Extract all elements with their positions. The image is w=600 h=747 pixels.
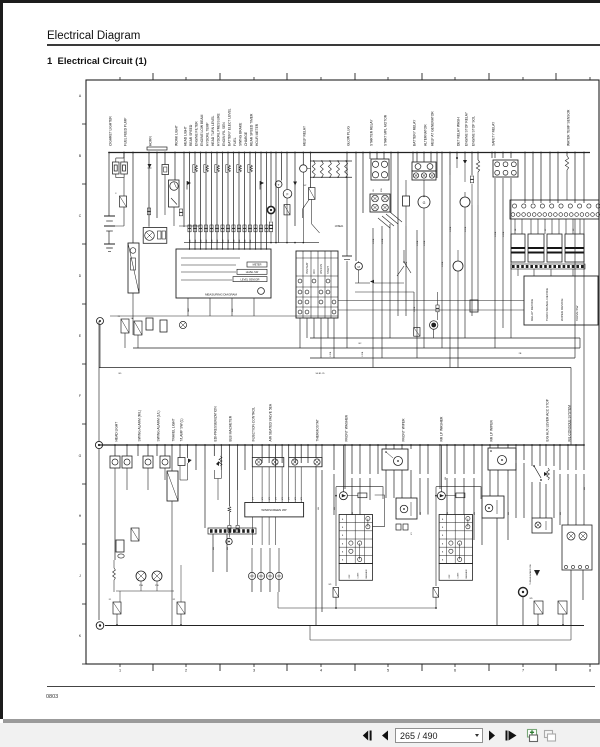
snapshot-new icon [525,728,540,743]
slant rect low [414,328,420,337]
svg-text:1.25B: 1.25B [417,240,419,246]
collector line y2426 [184,242,319,244]
svg-text:T: T [278,183,280,187]
svg-text:25B: 25B [381,188,383,192]
svg-text:TURN&HAZARD SW: TURN&HAZARD SW [529,563,532,585]
connector bead row [188,225,191,228]
svg-text:SWING BRAKE: SWING BRAKE [238,122,242,146]
svg-text:B: B [442,535,444,537]
svg-text:ENGINE STOP RELAY: ENGINE STOP RELAY [464,111,468,146]
svg-text:CONT.: CONT. [458,572,460,579]
svg-text:B: B [442,551,444,553]
console lamp box [562,525,592,570]
svg-text:OFF: OFF [449,574,451,579]
routing bus lines [355,291,414,293]
windscreen wiper box [245,503,304,517]
bottom terminal circle [96,622,104,630]
left fuse low [116,540,124,552]
nav first-page icon [362,730,373,741]
strip to breaker stubs [514,219,516,234]
wiper unit box [289,458,322,467]
svg-text:METER: METER [253,264,262,267]
nav last-page icon [505,730,518,741]
svg-text:HELP AT GENERATOR: HELP AT GENERATOR [430,111,434,146]
svg-text:6: 6 [454,669,456,673]
fuse F1 F2 pair [116,157,124,159]
svg-text:E/G AUX LEVER ACC STOP: E/G AUX LEVER ACC STOP [545,398,549,441]
header title [47,30,140,42]
breaker boxes right [511,234,525,262]
svg-text:CHARGE: CHARGE [244,131,248,146]
snapshot-copy icon [543,729,557,743]
key switch table [296,251,338,318]
alternator G [418,196,430,208]
svg-text:THERMOSTAT: THERMOSTAT [315,419,319,441]
svg-text:FRONT WASHER: FRONT WASHER [344,414,348,441]
svg-text:1.25B: 1.25B [424,240,426,246]
left horizontals [104,225,124,227]
svg-text:L/Y: L/Y [252,496,254,500]
svg-text:B: B [342,560,344,562]
plus contact row [248,572,255,579]
svg-text:RELAY DEVICE: RELAY DEVICE [530,299,534,321]
svg-text:AIR SEATED VALVE 5EA: AIR SEATED VALVE 5EA [268,403,272,441]
svg-text:L/B: L/B [445,476,447,480]
svg-text:5A: 5A [131,317,134,320]
svg-text:5: 5 [387,669,389,673]
svg-text:INJECTION CONTROL: INJECTION CONTROL [252,407,256,442]
glow plug bars [346,250,348,256]
gen circle2 [453,261,463,271]
device box right [524,276,598,325]
left low oval [118,554,124,558]
svg-text:OFF: OFF [349,574,351,579]
footer page code 0803 [46,694,58,700]
dropdown caret [475,734,479,737]
page drop shadow [3,719,600,723]
bottom bus [105,625,584,627]
svg-text:P5B: P5B [139,585,144,587]
svg-text:J: J [79,574,81,578]
low join line [116,590,174,592]
svg-text:WORK LIGHT: WORK LIGHT [174,125,178,146]
frame grid ticks [152,73,154,80]
flag right [260,181,264,185]
diode arrow x295 [293,182,297,186]
left risers [99,325,101,369]
svg-text:1.25B: 1.25B [450,226,452,232]
svg-text:L/Y: L/Y [282,496,284,500]
svg-text:1.25B: 1.25B [465,226,467,232]
svg-text:R/L CONSOLE SYSTEM: R/L CONSOLE SYSTEM [567,405,571,442]
svg-text:REAR SPEED: REAR SPEED [189,124,193,146]
svg-text:B: B [442,560,444,562]
det relay dot [456,157,458,159]
svg-text:CIGARET LIGHTER: CIGARET LIGHTER [108,116,112,146]
svg-text:MEASURING DIAGRAM: MEASURING DIAGRAM [205,293,237,297]
bottom second line [310,639,571,641]
svg-text:SWING ALARM (L/L): SWING ALARM (L/L) [156,411,160,442]
page top border [0,0,600,3]
svg-text:ON RUN: ON RUN [320,264,323,274]
swing alarm lamps [143,456,153,468]
svg-text:VALVE SW: VALVE SW [575,306,579,321]
pressure bead [436,305,439,308]
diag route 1 [303,199,310,218]
edi var resistor [219,456,222,466]
svg-text:B5: B5 [119,373,122,375]
main power bus section1 [109,152,590,154]
viewer toolbar [0,723,600,747]
starter diagonals [390,212,402,222]
svg-text:ENGINE FILTER: ENGINE FILTER [194,121,198,146]
stop relay arrow [463,160,467,164]
svg-text:B: B [342,543,344,545]
fuse box small2 [160,320,167,332]
svg-text:3: 3 [253,669,255,673]
fuse box small [146,318,153,330]
svg-text:F: F [79,394,81,398]
svg-text:HEAD LIGHT: HEAD LIGHT [114,422,118,442]
svg-text:C: C [79,214,82,218]
svg-text:B: B [342,551,344,553]
svg-text:WINDSCREEN WP: WINDSCREEN WP [261,508,286,512]
svg-text:1.25B: 1.25B [330,351,332,357]
svg-text:STARTER RELAY: STARTER RELAY [369,119,373,146]
svg-text:D: D [79,274,82,278]
svg-text:REAR SPEED TIMER: REAR SPEED TIMER [249,113,253,146]
svg-text:1.25B: 1.25B [414,306,416,312]
mid join line [278,607,436,609]
svg-text:F1: F1 [109,599,112,601]
svg-text:4: 4 [320,669,322,673]
svg-text:E: E [79,334,82,338]
front wiper box [382,449,408,470]
svg-text:G: G [423,201,426,205]
svg-text:ENGINE LOW BEAM: ENGINE LOW BEAM [200,114,204,146]
svg-text:L/Y: L/Y [411,531,413,535]
svg-text:OFF: OFF [313,269,316,274]
fuel gauge F [283,190,292,199]
meter box work light [169,180,180,207]
svg-text:1.25B: 1.25B [373,238,375,244]
svg-text:2B: 2B [519,353,522,355]
page left border [0,0,3,719]
svg-text:W1: W1 [329,584,333,586]
pressure ring [431,323,436,328]
edi joiner [214,478,221,480]
svg-text:F2: F2 [173,599,176,601]
safety relay block [493,160,518,177]
section2 interconnect wires [98,449,100,620]
footer rule [47,686,595,687]
svg-text:WIPER DEVICE: WIPER DEVICE [560,298,564,321]
flasher box [532,518,552,533]
lamp L1 [179,321,186,328]
svg-text:K: K [79,634,82,638]
schematic frame border [86,80,599,664]
svg-text:SWING ALARM (R/L): SWING ALARM (R/L) [137,410,141,442]
ladder A resistor [333,588,339,598]
svg-text:TRAVEL LIGHT: TRAVEL LIGHT [171,418,175,441]
heater resistor bank [310,160,352,162]
svg-text:F: F [115,193,117,195]
svg-text:2: 2 [185,669,187,673]
stop sol bead [470,176,473,179]
svg-text:DET RELAY WASH: DET RELAY WASH [456,117,460,146]
wiper switch ladder B [439,515,472,564]
svg-text:PREHEAT: PREHEAT [306,262,309,274]
measuring diagram box [176,249,271,298]
front wiper lower box [396,498,417,519]
stop zigzag [476,160,479,172]
svg-text:CONT.: CONT. [358,572,360,579]
head lamp pair [110,456,120,468]
bead x182 [179,209,182,212]
svg-text:L/Y: L/Y [289,496,291,500]
slant resistor x287 [284,205,290,215]
svg-text:RR LP WASHER: RR LP WASHER [439,416,443,442]
svg-text:B: B [79,154,82,158]
battery relay block [412,162,436,171]
svg-text:M: M [357,265,360,269]
svg-text:HYDORL TEMP: HYDORL TEMP [205,122,209,146]
svg-text:L/Y: L/Y [269,496,271,500]
flag left [187,181,191,185]
svg-text:SAFETY RELAY: SAFETY RELAY [491,121,495,146]
front washer motor [339,492,347,500]
svg-text:RR LP WIPER: RR LP WIPER [489,420,493,442]
svg-text:H: H [79,514,82,518]
svg-text:FRONT WIPER: FRONT WIPER [401,418,405,442]
svg-text:8: 8 [589,669,591,673]
travel relay [167,471,178,501]
hatched connector strip [208,528,256,534]
svg-text:1: 1 [119,669,121,673]
svg-text:ENGINE STOP SOL: ENGINE STOP SOL [471,116,475,146]
page number box [395,728,483,743]
fuse x165 [162,165,169,175]
section2 vertical wires [114,445,116,456]
bead x229 [228,526,231,529]
wiper switch ladder A [339,515,372,564]
horn feed bracket [147,147,167,150]
svg-text:1R: 1R [373,189,375,192]
svg-text:2467: 2467 [188,308,190,312]
svg-text:1.25B: 1.25B [362,351,364,357]
windscreen wires [251,467,253,503]
left terminal circle [95,441,102,448]
svg-text:B: B [442,527,444,529]
section1 vertical wires [108,153,110,216]
svg-text:L/Y: L/Y [301,496,303,500]
svg-text:1.25B: 1.25B [442,261,444,267]
svg-text:1.25B: 1.25B [495,231,497,237]
svg-text:L/Y: L/Y [262,496,264,500]
ground symbol [104,243,115,245]
svg-text:L/Y: L/Y [276,496,278,500]
bead horn wire [147,208,150,211]
section1 interconnect wires [299,318,301,348]
svg-text:GLOW PLUG: GLOW PLUG [346,126,350,146]
svg-text:HOUR METER: HOUR METER [255,123,259,146]
svg-text:A: A [79,94,82,98]
svg-text:L/Y: L/Y [295,496,297,500]
water temp sensor [565,156,568,170]
slant resistor SP [309,188,316,200]
eg lever switch [534,466,541,478]
rr wiper lower box [482,496,504,518]
svg-text:START: START [327,266,330,274]
left resistor low [131,528,139,541]
section2 bus [99,444,584,446]
connector strip CN1 [510,200,599,219]
svg-text:L/B: L/B [318,506,320,510]
small motor circle [226,538,232,544]
svg-text:B: B [342,535,344,537]
rr washer loop [436,487,481,499]
frame row ticks and letters [82,123,86,125]
svg-text:ALTERNATOR: ALTERNATOR [423,124,427,146]
measuring box stubs [187,298,189,316]
gen ind circle [460,197,470,207]
right resistor W5 [534,601,543,614]
sensor symbols row [192,165,194,173]
contact circle A [97,318,104,325]
fuse f2 low [177,602,185,614]
svg-text:B: B [442,519,444,521]
svg-text:SP: SP [304,185,307,187]
svg-text:T/LAMP SW (L): T/LAMP SW (L) [179,418,183,441]
svg-text:WASHER: WASHER [365,569,368,579]
right resistor 14 [558,601,567,614]
low lamp pair [136,571,146,581]
M circle [355,263,362,270]
bead x271 [269,222,272,225]
temp gauge T [275,181,282,188]
svg-text:HEAD LIGHT: HEAD LIGHT [183,126,187,146]
svg-text:1.25B: 1.25B [503,231,505,237]
resistor R10 [121,319,129,333]
battery B1 [108,215,110,216]
svg-text:1.25B: 1.25B [382,238,384,244]
svg-text:BATTERY ELECT LEVEL: BATTERY ELECT LEVEL [227,108,231,146]
svg-text:FUEL FEED PUMP: FUEL FEED PUMP [123,117,127,146]
small relay right [470,300,478,312]
horn diode [148,164,152,168]
rr wiper motor box [488,448,516,470]
svg-text:START MPL MOTOR: START MPL MOTOR [383,114,387,146]
svg-text:HEAD TURN LEVEL: HEAD TURN LEVEL [211,115,215,146]
svg-text:LEVEL SENSOR: LEVEL SENSOR [241,278,260,281]
rr washer motor [437,492,445,500]
slant fuse left [120,196,127,207]
starter relay lower [370,194,390,212]
svg-text:1O5EA1: 1O5EA1 [335,225,344,228]
nav next icon [488,730,496,741]
svg-text:EDI-PRESSERIZATION: EDI-PRESSERIZATION [214,406,218,442]
svg-text:WATER TEMP SENSOR: WATER TEMP SENSOR [566,109,570,146]
svg-text:7: 7 [522,669,524,673]
svg-text:B: B [342,527,344,529]
washer loop [336,487,383,499]
svg-text:B: B [442,543,444,545]
svg-text:HYDORL PRESSURE: HYDORL PRESSURE [216,113,220,146]
turn hazard terminal [519,588,528,597]
help relay coil [300,165,307,172]
hazard unit box [252,458,283,467]
svg-text:B2: B2 [359,343,362,345]
tlamp switch box [178,458,185,466]
tlamp arrow [188,459,192,464]
front wiper connectors [396,524,401,530]
svg-text:TURN SIGNAL DEVICE: TURN SIGNAL DEVICE [545,288,549,321]
fuel sender unit [128,243,139,293]
svg-text:BATTERY RELAY: BATTERY RELAY [412,119,416,146]
svg-text:W5: W5 [529,598,533,600]
svg-text:1.25B: 1.25B [406,261,408,267]
svg-text:LEVEL SW: LEVEL SW [246,271,259,274]
fuse f1 low [113,602,121,614]
nav prev icon [381,730,389,741]
header rule [47,44,600,45]
bold ring meter [267,206,274,213]
svg-text:G: G [79,454,82,458]
bead x237 [236,526,239,529]
transistor Q1 [403,250,405,262]
left low zigzag [113,568,116,580]
svg-text:B: B [342,519,344,521]
svg-text:HORN: HORN [148,136,152,146]
svg-text:FUEL: FUEL [233,137,237,146]
section heading [47,56,147,67]
svg-text:BLB MACHETER: BLB MACHETER [229,415,233,441]
ladder B resistor [433,588,439,598]
svg-text:ENGIN FIL SEN: ENGIN FIL SEN [222,122,226,146]
svg-text:HELP RELAY: HELP RELAY [303,125,307,146]
blb zigzag [228,506,231,512]
svg-text:S6 B1.25: S6 B1.25 [316,373,326,375]
starter relay block [371,159,389,180]
fusible link [403,196,410,206]
resistor R11 [134,321,142,335]
svg-text:WASHER: WASHER [465,569,468,579]
svg-text:F: F [287,193,289,197]
lamp box left [143,228,167,244]
